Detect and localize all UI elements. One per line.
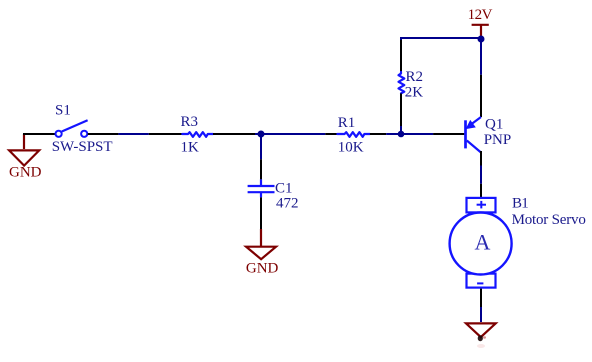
wire (400, 126, 402, 134)
wire (408, 37, 481, 39)
wire (260, 197, 262, 229)
node junction R2/base (398, 131, 405, 138)
wire (88, 133, 119, 135)
svg-text:R2: R2 (406, 69, 424, 85)
wire (149, 133, 183, 135)
ground GND1 (left) (9, 134, 42, 181)
wire (401, 38, 410, 43)
svg-text:PNP: PNP (484, 132, 512, 148)
capacitor C1 (248, 179, 299, 211)
svg-text:S1: S1 (55, 102, 71, 118)
resistor R3 (181, 114, 214, 156)
wire (386, 133, 433, 135)
svg-text:Q1: Q1 (485, 116, 503, 132)
svg-text:12V: 12V (468, 7, 493, 23)
wire (213, 133, 255, 135)
wire (325, 133, 337, 135)
wire (480, 75, 482, 117)
wire (370, 133, 386, 135)
wire (260, 159, 262, 179)
wire (433, 133, 464, 135)
svg-text:2K: 2K (405, 85, 424, 101)
resistor R2 (399, 69, 424, 101)
wire (480, 151, 482, 166)
svg-text:472: 472 (276, 196, 299, 212)
svg-text:C1: C1 (275, 181, 293, 197)
transistor Q1 (466, 116, 512, 152)
svg-text:A: A (475, 230, 491, 255)
svg-text:R1: R1 (338, 115, 356, 131)
svg-text:Motor Servo: Motor Servo (512, 212, 586, 228)
resistor R1 (337, 115, 370, 156)
switch S1 (52, 102, 113, 155)
svg-text:1: 1 (521, 196, 529, 212)
node junction 12V (478, 36, 485, 43)
svg-text:GND: GND (9, 165, 42, 181)
wire (260, 134, 262, 159)
svg-text:SW-SPST: SW-SPST (52, 139, 113, 155)
wire (23, 133, 56, 135)
ground GND2 (middle) (246, 229, 279, 276)
wire (480, 184, 482, 197)
wire (480, 166, 482, 184)
wire (400, 40, 402, 72)
wire (255, 133, 325, 135)
wire (480, 39, 482, 75)
wire (118, 133, 148, 135)
svg-text:GND: GND (246, 260, 279, 276)
motor B1 (450, 196, 586, 288)
svg-text:10K: 10K (338, 140, 364, 156)
wire (480, 289, 482, 307)
svg-text:R3: R3 (181, 114, 199, 130)
wire (400, 93, 402, 126)
node junction C1 tap (258, 131, 265, 138)
svg-text:1K: 1K (181, 140, 200, 156)
power 12V (468, 7, 493, 38)
wire (480, 307, 482, 322)
ground GND3 (bottom) (466, 323, 496, 348)
